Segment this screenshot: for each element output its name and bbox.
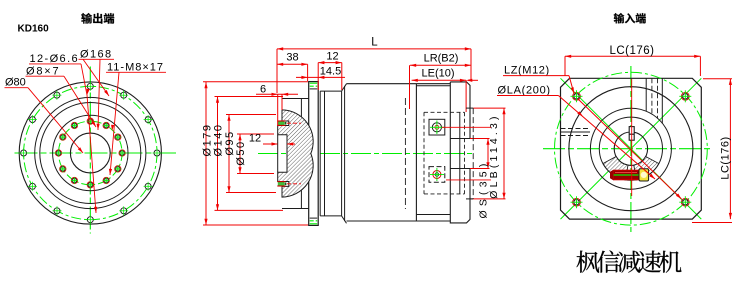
dimension LC(176) top [565, 45, 700, 76]
flange bolt hole section bottom (green) [310, 218, 318, 224]
svg-text:Ø168: Ø168 [80, 49, 113, 61]
svg-text:LR(B2): LR(B2) [424, 53, 459, 65]
dimension ØLB(114.3) [471, 108, 506, 199]
svg-text:12: 12 [249, 133, 261, 145]
svg-text:ØLB(114.3): ØLB(114.3) [488, 113, 500, 199]
ring section A [320, 86, 344, 221]
dimension 38 [277, 52, 308, 82]
svg-text:12: 12 [326, 51, 338, 63]
clamp screw lower [429, 167, 445, 183]
label 11-M8x17 with leader [106, 62, 166, 176]
collar D140 outline bottom [282, 190, 309, 208]
svg-text:KD160: KD160 [18, 24, 50, 35]
input-end flange view (right) [543, 66, 712, 232]
circle D95 [53, 115, 128, 190]
label Ø80 with leader [5, 77, 84, 154]
label ØLA(200) with leader [497, 85, 655, 180]
dimension 12 (bore depth) [249, 133, 295, 146]
svg-text:38: 38 [286, 52, 298, 64]
label Ø8x7 with leader [26, 66, 97, 128]
seal ring groove bottom (green) [277, 182, 301, 186]
12 outer bolt holes D6.6 [19, 82, 161, 224]
dimension LC(176) right [692, 79, 732, 223]
hidden pilot ring ØLB on flange face [466, 107, 473, 109]
keyway slot [629, 127, 634, 141]
dimension 6 (step) [256, 84, 298, 127]
svg-text:L: L [371, 37, 378, 49]
svg-text:Ø50: Ø50 [235, 140, 247, 165]
hidden lines (screw boss) top [645, 78, 647, 111]
output hub dome (hatched section) [278, 110, 313, 197]
key cross line [629, 133, 634, 135]
hidden line inside body [404, 98, 406, 209]
brand text 枫信减速机 [577, 250, 682, 272]
dimension Ø95 [224, 115, 276, 193]
svg-text:Ø140: Ø140 [213, 124, 225, 157]
output-end flange view (left) [15, 67, 177, 234]
clamp ring circle [599, 117, 662, 180]
svg-text:Ø80: Ø80 [5, 77, 26, 89]
svg-text:LC(176): LC(176) [609, 45, 654, 57]
dimension ØS(35) [470, 139, 490, 219]
hidden lines left (clamp slot) [561, 128, 591, 130]
12 inner tapped holes M8 [55, 118, 125, 188]
label 输出端 (output end) [81, 13, 114, 24]
main housing body [347, 84, 451, 221]
circle D140 [35, 97, 146, 208]
label LZ(M12) with leader [503, 64, 682, 199]
svg-text:14.5: 14.5 [320, 66, 341, 78]
seal ring groove top (green) [277, 121, 301, 125]
svg-text:11-M8×17: 11-M8×17 [107, 62, 164, 74]
outer circle D179 [19, 82, 161, 224]
centerline vertical [89, 67, 91, 234]
dimension 14.5 (flange thickness) [296, 66, 345, 80]
svg-text:LZ(M12): LZ(M12) [504, 64, 550, 76]
label 12-Ø6.6 with leader [29, 53, 97, 213]
label 输入端 (input end) [614, 13, 646, 23]
dimension LE(10) [412, 68, 478, 113]
dimension LR(B2) [410, 53, 472, 110]
dimension L (overall) [277, 37, 471, 94]
output flange disc D179 [309, 82, 319, 226]
hidden coupling (dashed) [424, 112, 465, 194]
dimension Ø50 [235, 134, 274, 174]
section centerline [258, 153, 474, 155]
4 corner tapped holes M12 [571, 90, 692, 208]
centerline vertical [630, 66, 632, 232]
section view (middle) [258, 82, 474, 226]
svg-text:Ø8×7: Ø8×7 [26, 66, 60, 78]
svg-text:12-Ø6.6: 12-Ø6.6 [30, 53, 80, 65]
centerline horizontal [543, 148, 712, 150]
bore circle D50 [70, 133, 110, 173]
clamp screw upper [429, 119, 445, 135]
bolt circle D80 (green dashed) [59, 121, 123, 185]
bolt circle ØLA (green dashed) [555, 72, 708, 225]
housing circle [569, 87, 693, 211]
clamp bolt shaft (red) [611, 170, 640, 180]
red centerline vertical [631, 79, 633, 196]
chamfer joints ring A to body [342, 84, 347, 224]
input housing section [416, 86, 450, 215]
boss circle [590, 108, 671, 189]
input flange [450, 82, 470, 223]
flange bolt hole section top (green) [310, 83, 318, 89]
clamp wedges (hatched) [603, 157, 628, 180]
svg-text:LC(176): LC(176) [720, 136, 732, 179]
screw reference lines (red) [442, 126, 491, 128]
dimension Ø140 [213, 97, 284, 211]
circle D127 counterbore [40, 103, 141, 204]
svg-text:LE(10): LE(10) [421, 68, 454, 80]
dimension Ø179 [202, 82, 309, 225]
clamp bolt head (yellow) [639, 169, 649, 181]
collar D140 outline top [282, 99, 309, 117]
svg-text:ØLA(200): ØLA(200) [498, 85, 551, 97]
label Ø168 with leader [79, 49, 115, 131]
input bore ØS [614, 132, 647, 165]
centerline horizontal [15, 152, 177, 154]
coupling inner face line [459, 112, 461, 194]
bolt circle D168 (green dashed) [24, 86, 157, 219]
diagonal centerlines [561, 78, 702, 219]
dimension 12 (ring A) [318, 51, 342, 91]
square flange LC x LC [561, 78, 702, 219]
bore mouth face line [277, 135, 279, 172]
svg-text:6: 6 [260, 84, 266, 96]
